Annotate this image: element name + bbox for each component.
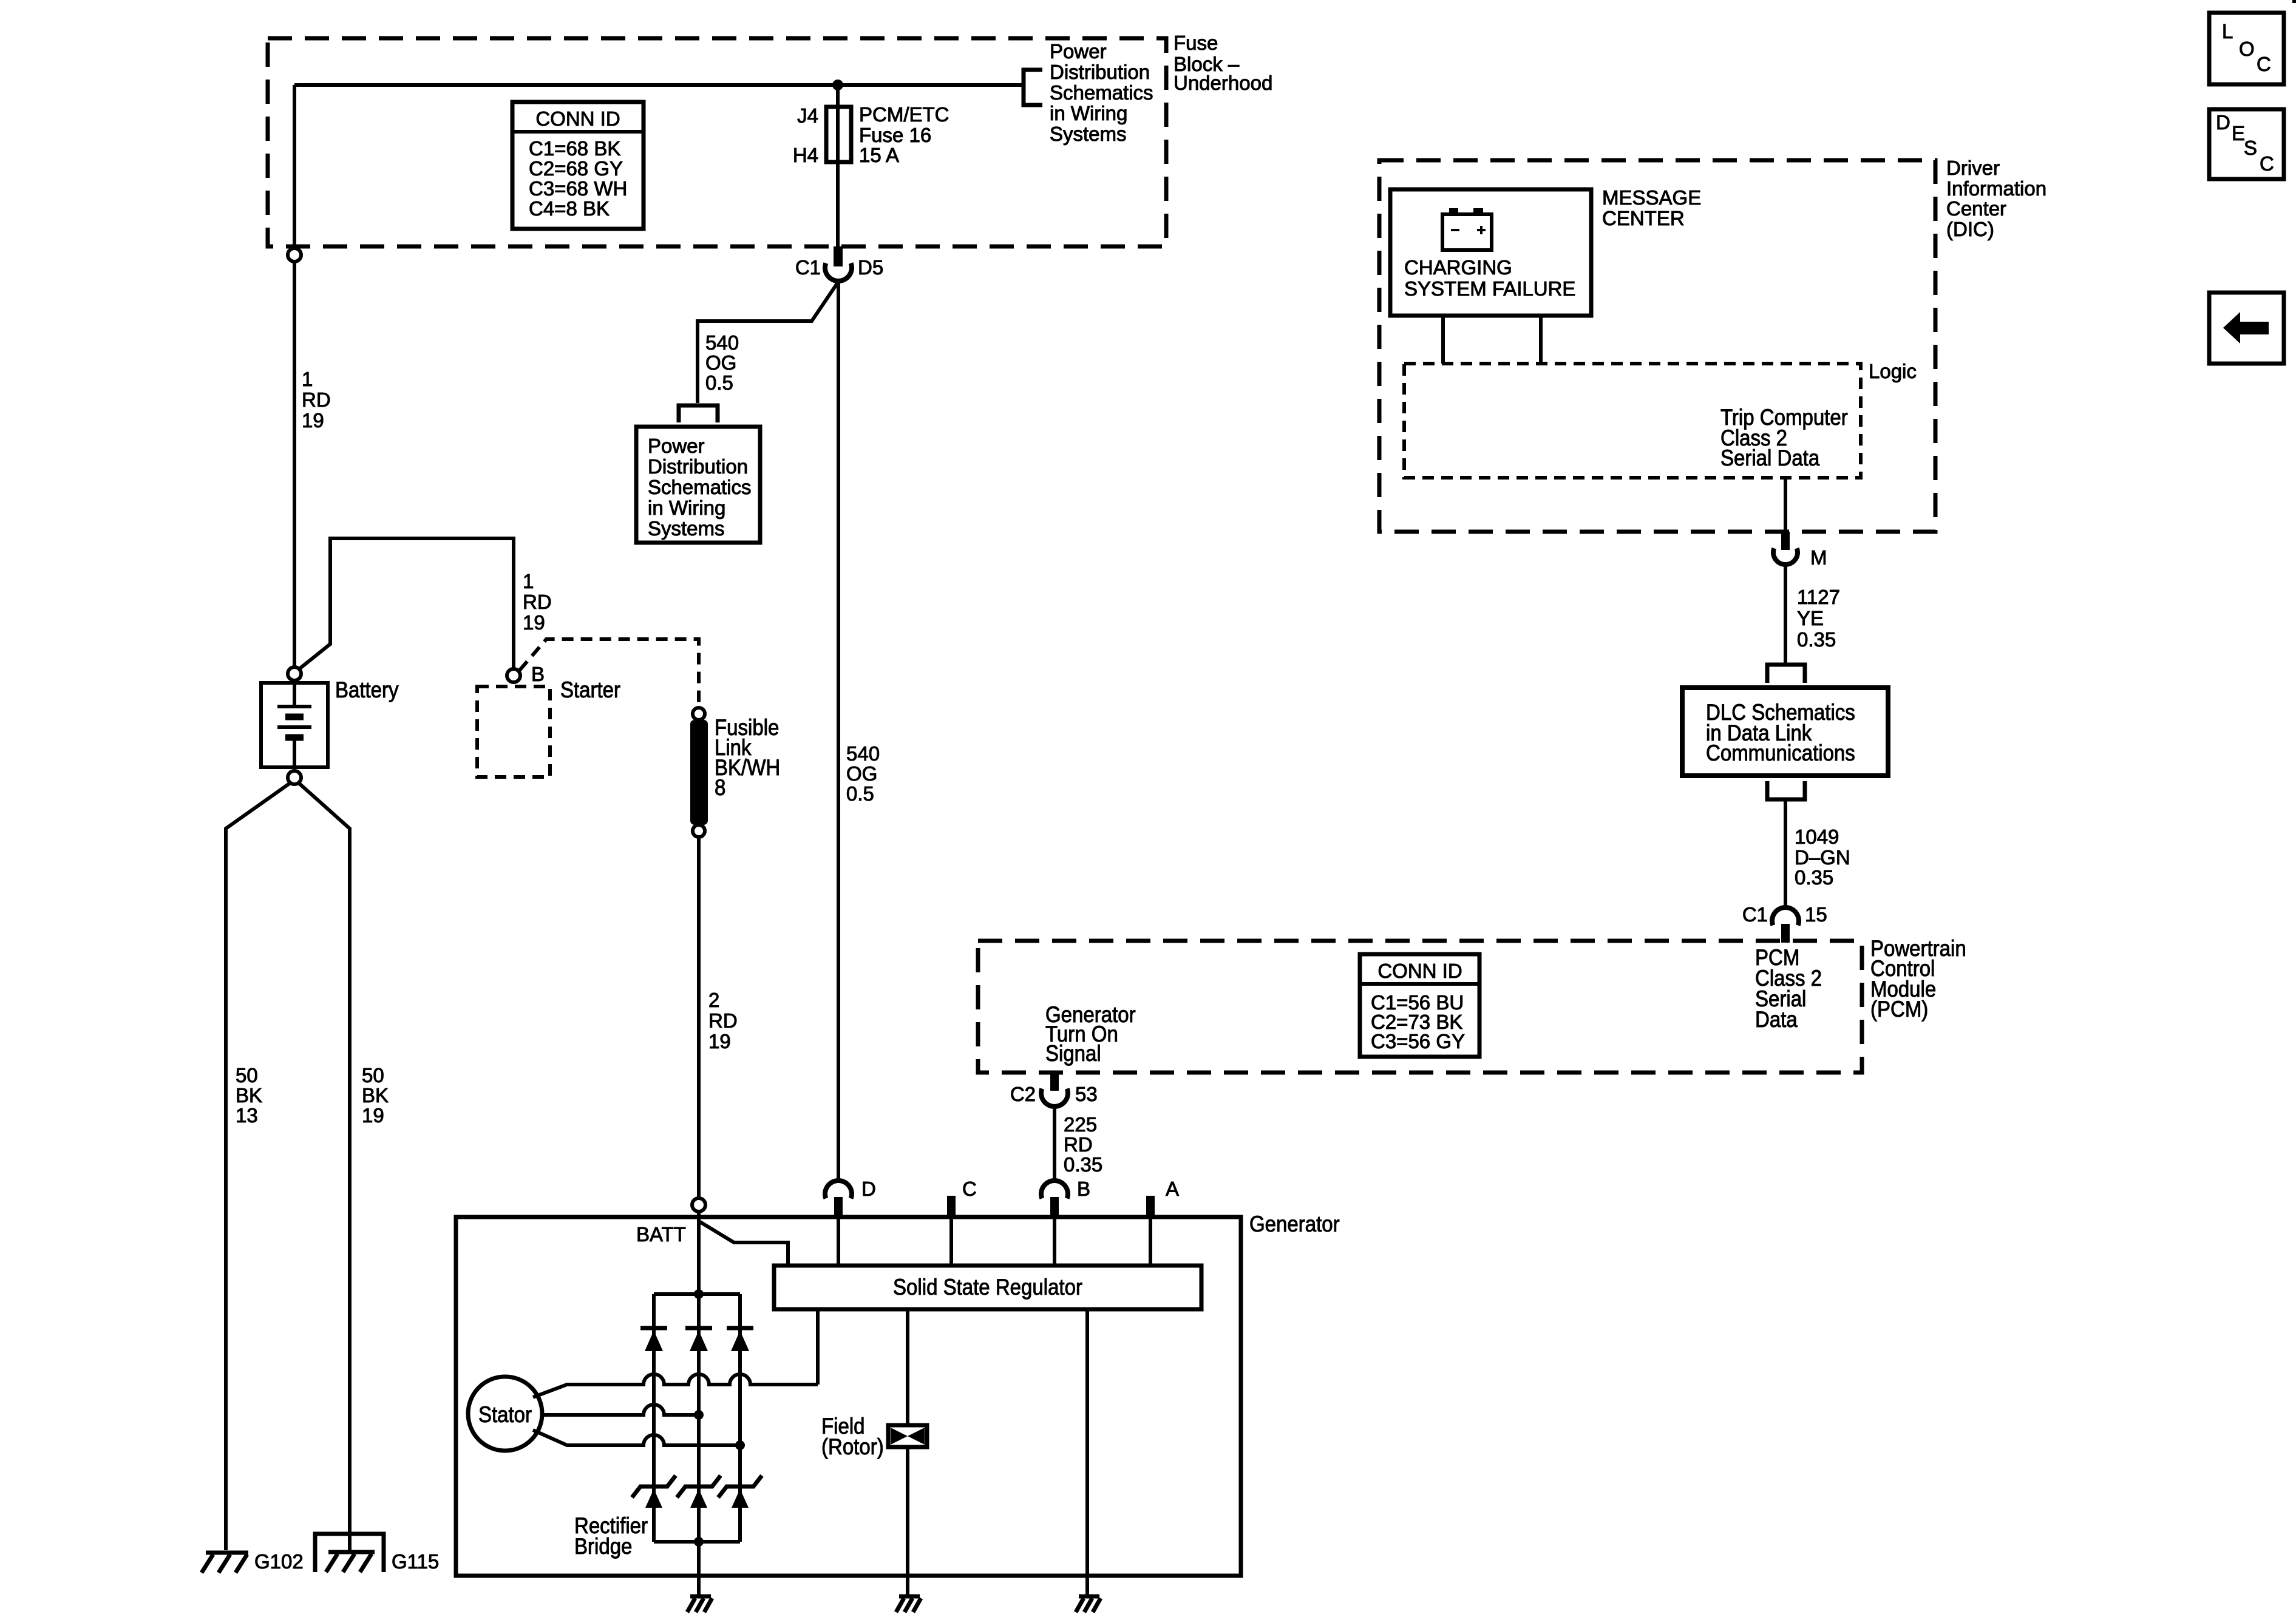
svg-text:15: 15	[1805, 903, 1827, 926]
LOC icon	[2209, 13, 2284, 84]
wire 1 RD 19 battery to starter	[299, 538, 552, 669]
svg-text:225: 225	[1064, 1113, 1097, 1136]
svg-text:Center: Center	[1946, 197, 2006, 220]
svg-text:Driver: Driver	[1946, 157, 2000, 179]
svg-text:1049: 1049	[1795, 825, 1839, 848]
svg-text:Serial Data: Serial Data	[1720, 446, 1820, 470]
svg-text:Battery: Battery	[335, 677, 399, 702]
CONN ID table PCM	[1360, 954, 1479, 1057]
svg-text:C: C	[2257, 53, 2271, 75]
svg-text:8: 8	[715, 775, 725, 800]
svg-text:19: 19	[362, 1104, 384, 1127]
svg-text:C: C	[2260, 152, 2274, 175]
stator phase 2 wire	[542, 1405, 699, 1415]
svg-text:OG: OG	[846, 762, 877, 785]
wire field to ground	[906, 1447, 909, 1596]
svg-text:0.5: 0.5	[846, 782, 874, 805]
svg-text:C2=68 GY: C2=68 GY	[529, 157, 623, 180]
ground generator regulator	[1076, 1596, 1101, 1612]
svg-text:D5: D5	[858, 256, 883, 279]
svg-text:D–GN: D–GN	[1795, 846, 1850, 869]
DLC schematics box	[1682, 688, 1888, 776]
fuse block underhood dashed box	[268, 32, 1272, 246]
connector D generator	[825, 1178, 876, 1266]
wire battery negative to G102	[226, 783, 290, 1550]
svg-text:13: 13	[236, 1104, 258, 1127]
message center box	[1390, 186, 1701, 316]
junction rectifier ground	[694, 1537, 704, 1547]
svg-text:540: 540	[705, 331, 739, 354]
diode top 1	[640, 1328, 667, 1351]
svg-text:C4=8 BK: C4=8 BK	[529, 197, 610, 220]
svg-text:PCM/ETC: PCM/ETC	[859, 103, 949, 126]
stator	[468, 1377, 542, 1451]
svg-text:M: M	[1810, 546, 1827, 569]
wire 540 OG 0.5 to generator D	[838, 281, 880, 1181]
svg-text:B: B	[531, 663, 545, 685]
wire regulator to field	[906, 1309, 909, 1425]
wire fuse to connector C1	[836, 162, 840, 246]
svg-text:(PCM): (PCM)	[1870, 997, 1928, 1022]
svg-text:RD: RD	[708, 1009, 738, 1032]
bracket to power distribution schematics	[1024, 40, 1153, 145]
connector B generator	[1041, 1178, 1090, 1266]
power distribution schematics box	[636, 427, 760, 543]
svg-text:(Rotor): (Rotor)	[821, 1434, 884, 1459]
wire logic to connector M	[1784, 478, 1787, 532]
junction BATT rectifier	[694, 1289, 704, 1299]
wire 540 OG 0.5 branch to power distribution	[698, 282, 838, 403]
svg-text:0.5: 0.5	[705, 371, 733, 394]
svg-text:CENTER: CENTER	[1602, 207, 1685, 229]
ground generator rectifier	[687, 1596, 712, 1612]
svg-text:Fuse 16: Fuse 16	[859, 124, 931, 146]
bracket power distribution box	[679, 405, 718, 422]
svg-text:MESSAGE: MESSAGE	[1602, 186, 1701, 209]
rectifier verticals	[654, 1294, 740, 1542]
svg-text:D: D	[861, 1178, 876, 1200]
back arrow icon	[2209, 293, 2284, 364]
rectifier bridge top bus	[654, 1292, 740, 1296]
zener diode bottom 3	[718, 1476, 762, 1508]
stator phase 3 wire	[533, 1430, 740, 1445]
charging system failure text	[1404, 256, 1575, 300]
svg-text:B: B	[1077, 1178, 1090, 1200]
svg-text:Systems: Systems	[648, 517, 725, 540]
svg-text:OG: OG	[705, 351, 736, 374]
wire regulator to stator phase 1	[816, 1309, 820, 1385]
CONN ID table fuse block	[512, 102, 644, 229]
wire message center to logic left	[1441, 316, 1445, 364]
stator phase 1 wire	[533, 1374, 818, 1397]
svg-text:50: 50	[362, 1064, 384, 1086]
connector C1 D5	[795, 246, 883, 281]
svg-text:C1: C1	[1742, 903, 1768, 926]
svg-text:Power: Power	[648, 435, 705, 457]
svg-text:CONN ID: CONN ID	[535, 107, 620, 130]
battery	[261, 667, 399, 784]
rectifier bridge label	[574, 1513, 648, 1559]
wire 2 RD 19 fusible link to BATT	[699, 837, 738, 1198]
wire BATT to regulator	[700, 1222, 788, 1266]
field rotor coil	[821, 1414, 927, 1459]
svg-text:O: O	[2239, 38, 2255, 60]
svg-text:1: 1	[302, 368, 313, 390]
svg-text:0.35: 0.35	[1795, 866, 1833, 889]
svg-text:G115: G115	[392, 1550, 439, 1573]
connector C2 53	[1010, 1073, 1098, 1107]
svg-text:0.35: 0.35	[1797, 628, 1836, 651]
svg-text:C2: C2	[1010, 1083, 1036, 1105]
svg-text:(DIC): (DIC)	[1946, 218, 1994, 240]
svg-text:Schematics: Schematics	[648, 476, 752, 498]
svg-text:Fuse: Fuse	[1173, 32, 1218, 54]
svg-text:S: S	[2244, 137, 2257, 159]
svg-text:Information: Information	[1946, 177, 2046, 200]
wire BATT into generator	[697, 1212, 701, 1294]
svg-text:Distribution: Distribution	[648, 455, 748, 478]
svg-text:53: 53	[1075, 1083, 1098, 1105]
wire 1 RD 19 battery feed	[294, 262, 331, 667]
connector M	[1773, 532, 1827, 569]
connector A generator	[1146, 1178, 1179, 1266]
svg-text:Underhood: Underhood	[1173, 72, 1272, 94]
ground G115	[315, 1534, 439, 1573]
svg-text:J4: J4	[797, 104, 818, 127]
svg-text:D: D	[2216, 111, 2230, 134]
dashed wire starter to fusible link	[520, 639, 699, 706]
svg-text:H4: H4	[793, 144, 818, 166]
svg-text:Solid State Regulator: Solid State Regulator	[893, 1275, 1082, 1300]
svg-text:Bridge: Bridge	[574, 1534, 632, 1559]
svg-text:in Wiring: in Wiring	[1050, 102, 1127, 124]
zener diode bottom 2	[677, 1476, 721, 1508]
wire message center to logic right	[1539, 316, 1543, 364]
wire battery negative to G115	[299, 783, 389, 1552]
svg-text:Systems: Systems	[1050, 123, 1127, 145]
DESC icon	[2209, 109, 2284, 179]
bracket DLC top	[1767, 665, 1805, 683]
terminal BATT generator	[636, 1198, 705, 1246]
svg-text:19: 19	[302, 409, 324, 432]
svg-text:Starter: Starter	[560, 677, 620, 702]
svg-text:Generator: Generator	[1249, 1212, 1340, 1236]
svg-text:1127: 1127	[1797, 586, 1840, 608]
bracket DLC bottom	[1767, 781, 1805, 799]
svg-text:Logic: Logic	[1869, 360, 1917, 382]
generator turn on signal text	[1045, 1002, 1136, 1066]
connector C generator	[947, 1178, 977, 1266]
svg-text:0.35: 0.35	[1064, 1153, 1102, 1176]
svg-text:BK: BK	[236, 1084, 262, 1107]
svg-text:SYSTEM FAILURE: SYSTEM FAILURE	[1404, 277, 1575, 300]
diode top 3	[727, 1328, 753, 1351]
svg-text:RD: RD	[1064, 1133, 1093, 1156]
svg-text:2: 2	[708, 989, 719, 1011]
svg-text:Signal: Signal	[1045, 1041, 1101, 1066]
rectifier bridge bottom bus	[654, 1540, 740, 1544]
svg-text:15 A: 15 A	[859, 144, 899, 166]
svg-text:Schematics: Schematics	[1050, 81, 1153, 104]
svg-text:CHARGING: CHARGING	[1404, 256, 1512, 279]
svg-text:C3=56 GY: C3=56 GY	[1371, 1030, 1465, 1053]
svg-text:Stator: Stator	[478, 1402, 532, 1427]
wire battery positive bus	[294, 83, 1024, 87]
generator box	[456, 1212, 1340, 1576]
zener diode bottom 1	[632, 1476, 676, 1508]
svg-text:E: E	[2232, 122, 2245, 144]
wire 1127 YE 0.35	[1785, 564, 1840, 663]
svg-text:BATT: BATT	[636, 1223, 686, 1246]
svg-text:1: 1	[523, 570, 534, 592]
terminal B starter	[507, 663, 545, 685]
svg-text:19: 19	[708, 1030, 731, 1053]
wire regulator to ground	[1085, 1309, 1089, 1596]
svg-text:A: A	[1166, 1178, 1179, 1200]
connector C1 15 PCM	[1742, 903, 1827, 943]
svg-text:Power: Power	[1050, 40, 1107, 63]
svg-text:19: 19	[523, 611, 545, 634]
DIC dashed box	[1379, 157, 2046, 532]
svg-text:540: 540	[846, 742, 880, 765]
svg-text:G102: G102	[254, 1550, 304, 1573]
svg-text:50: 50	[236, 1064, 258, 1086]
diode top 2	[685, 1328, 712, 1351]
wire 225 RD 0.35	[1055, 1107, 1102, 1181]
svg-text:RD: RD	[523, 591, 552, 613]
svg-text:L: L	[2222, 20, 2233, 42]
wire rectifier to ground	[697, 1542, 701, 1596]
svg-text:RD: RD	[302, 388, 331, 411]
starter dashed box	[477, 677, 620, 777]
ground G102	[202, 1550, 304, 1573]
svg-text:YE: YE	[1797, 607, 1824, 629]
fusible link BK/WH 8	[690, 708, 780, 837]
junction phase 2	[694, 1410, 704, 1420]
svg-text:C: C	[962, 1178, 977, 1200]
trip computer class 2 serial data text	[1720, 405, 1848, 470]
svg-text:in Wiring: in Wiring	[648, 497, 725, 519]
svg-text:Data: Data	[1755, 1007, 1798, 1032]
svg-text:BK: BK	[362, 1084, 389, 1107]
terminal fuse block output	[288, 248, 301, 262]
wire 1049 D-GN 0.35	[1785, 799, 1850, 907]
PCM class 2 serial data text	[1755, 945, 1822, 1032]
fuse PCM/ETC Fuse 16	[793, 85, 949, 166]
ground generator field	[896, 1596, 921, 1612]
scan artifact top right corner	[2292, 0, 2296, 3]
svg-text:Distribution: Distribution	[1050, 61, 1150, 83]
svg-text:CONN ID: CONN ID	[1377, 960, 1462, 982]
svg-text:C1: C1	[795, 256, 821, 279]
svg-text:Communications: Communications	[1706, 741, 1855, 765]
solid state regulator	[774, 1266, 1201, 1309]
junction phase 3	[735, 1440, 745, 1450]
svg-text:C1=68 BK: C1=68 BK	[529, 137, 620, 160]
PCM dashed box	[978, 936, 1966, 1073]
battery telltale icon	[1442, 208, 1492, 250]
logic dashed box	[1404, 360, 1917, 478]
svg-text:C3=68 WH: C3=68 WH	[529, 177, 627, 200]
junction fuse tap	[832, 80, 843, 90]
